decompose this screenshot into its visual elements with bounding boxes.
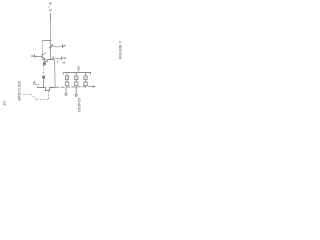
svg-text:8: 8 xyxy=(62,62,66,64)
svg-text:10.: 10. xyxy=(2,100,7,106)
svg-text:OUTPUT: OUTPUT xyxy=(77,98,81,112)
svg-text:8: 8 xyxy=(63,45,67,47)
svg-text:FIGURE 2: FIGURE 2 xyxy=(117,40,122,59)
svg-text:8: 8 xyxy=(63,57,67,59)
svg-text:32: 32 xyxy=(77,66,81,70)
svg-text:X: X xyxy=(47,8,52,11)
svg-text:GATED CLOCK: GATED CLOCK xyxy=(17,81,22,101)
